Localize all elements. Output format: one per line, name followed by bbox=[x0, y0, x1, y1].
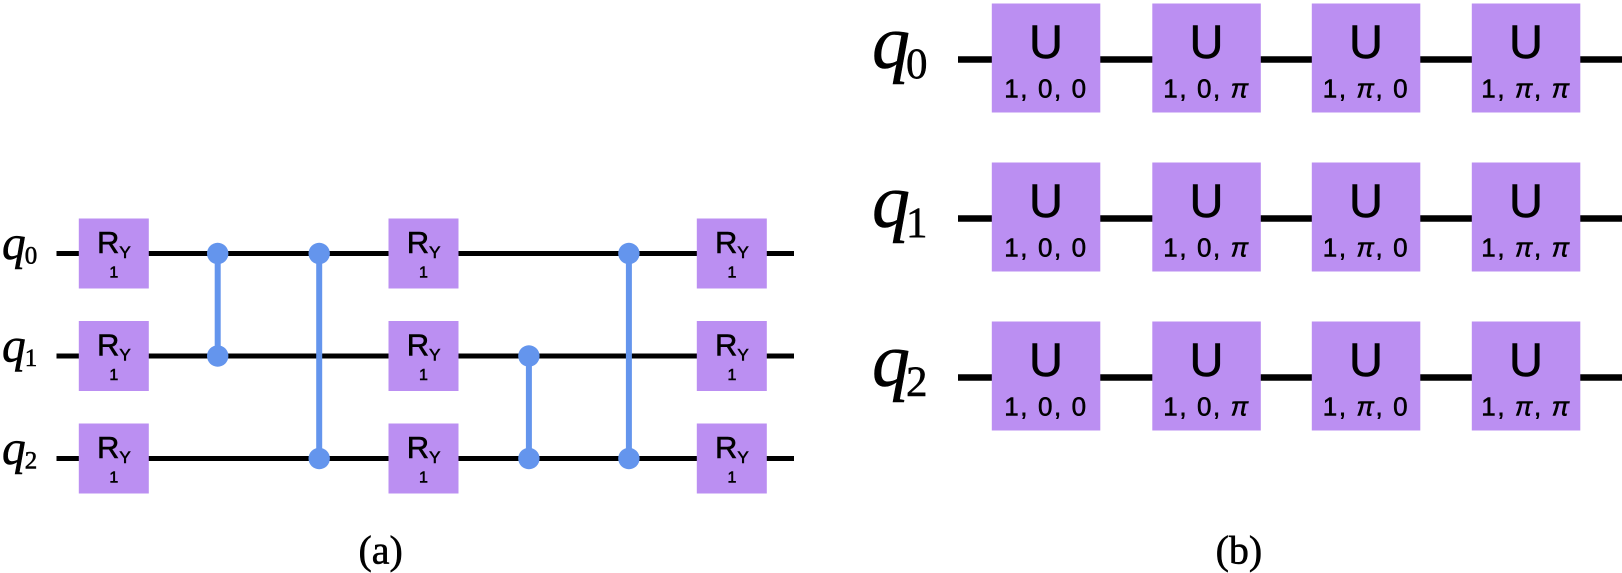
wire q0 (circuit a) bbox=[57, 251, 795, 256]
svg-text:1, 0, π: 1, 0, π bbox=[1163, 233, 1249, 263]
svg-text:1, 0, π: 1, 0, π bbox=[1163, 74, 1249, 104]
svg-text:U: U bbox=[1029, 174, 1063, 227]
svg-text:U: U bbox=[1029, 333, 1063, 386]
gate U(1,0,pi) q2 col2 (circuit b) bbox=[1152, 322, 1261, 431]
svg-text:(a): (a) bbox=[358, 528, 402, 573]
gate U(1,0,0) q0 col1 (circuit b) bbox=[992, 4, 1101, 113]
gate U(1,pi,pi) q2 col4 (circuit b) bbox=[1472, 322, 1581, 431]
gate RY(1) q2 col4 (circuit a) bbox=[389, 424, 459, 494]
svg-text:U: U bbox=[1349, 174, 1383, 227]
caption (b) bbox=[1216, 528, 1263, 573]
CZ connector col2 q0-q1 (circuit a) bbox=[207, 243, 228, 367]
svg-text:1, 0, 0: 1, 0, 0 bbox=[1004, 74, 1087, 104]
svg-text:U: U bbox=[1190, 333, 1224, 386]
svg-text:1, π, π: 1, π, π bbox=[1481, 233, 1570, 263]
svg-text:1, 0, 0: 1, 0, 0 bbox=[1004, 233, 1087, 263]
svg-text:1, π, π: 1, π, π bbox=[1481, 74, 1570, 104]
svg-text:q1: q1 bbox=[2, 321, 37, 373]
svg-text:1: 1 bbox=[727, 470, 736, 487]
svg-text:1, π, 0: 1, π, 0 bbox=[1323, 74, 1409, 104]
svg-text:1, 0, π: 1, 0, π bbox=[1163, 392, 1249, 422]
svg-text:1: 1 bbox=[419, 367, 428, 384]
svg-text:q0: q0 bbox=[2, 218, 37, 270]
gate U(1,pi,pi) q1 col4 (circuit b) bbox=[1472, 163, 1581, 272]
svg-text:1: 1 bbox=[727, 265, 736, 282]
wire q1 (circuit a) bbox=[57, 354, 795, 359]
svg-text:1: 1 bbox=[419, 470, 428, 487]
svg-text:U: U bbox=[1349, 333, 1383, 386]
gate RY(1) q1 col4 (circuit a) bbox=[389, 321, 459, 391]
gate RY(1) q2 col7 (circuit a) bbox=[697, 424, 767, 494]
gate RY(1) q0 col1 (circuit a) bbox=[79, 219, 149, 289]
qubit label q0 (circuit b) bbox=[872, 1, 928, 89]
svg-text:1: 1 bbox=[109, 265, 118, 282]
gate RY(1) q1 col7 (circuit a) bbox=[697, 321, 767, 391]
gate U(1,0,pi) q1 col2 (circuit b) bbox=[1152, 163, 1261, 272]
svg-text:1, π, 0: 1, π, 0 bbox=[1323, 392, 1409, 422]
wire q2 (circuit b) bbox=[958, 374, 1622, 381]
gate U(1,0,0) q1 col1 (circuit b) bbox=[992, 163, 1101, 272]
caption (a) bbox=[358, 528, 402, 573]
svg-text:1: 1 bbox=[419, 265, 428, 282]
svg-text:1, π, 0: 1, π, 0 bbox=[1323, 233, 1409, 263]
svg-text:U: U bbox=[1349, 15, 1383, 68]
svg-text:1: 1 bbox=[727, 367, 736, 384]
qubit label q1 (circuit a) bbox=[2, 321, 37, 373]
svg-text:U: U bbox=[1509, 333, 1543, 386]
gate RY(1) q0 col4 (circuit a) bbox=[389, 219, 459, 289]
CZ connector col5 q1-q2 (circuit a) bbox=[518, 345, 539, 469]
wire q1 (circuit b) bbox=[958, 215, 1622, 222]
gate U(1,0,0) q2 col1 (circuit b) bbox=[992, 322, 1101, 431]
gate RY(1) q2 col1 (circuit a) bbox=[79, 424, 149, 494]
qubit label q2 (circuit a) bbox=[2, 423, 37, 475]
gate U(1,pi,0) q0 col3 (circuit b) bbox=[1312, 4, 1421, 113]
gate U(1,pi,0) q1 col3 (circuit b) bbox=[1312, 163, 1421, 272]
gate U(1,0,pi) q0 col2 (circuit b) bbox=[1152, 4, 1261, 113]
wire q2 (circuit a) bbox=[57, 456, 795, 461]
svg-text:U: U bbox=[1029, 15, 1063, 68]
qubit label q2 (circuit b) bbox=[872, 319, 928, 407]
wire q0 (circuit b) bbox=[958, 56, 1622, 63]
svg-text:U: U bbox=[1190, 174, 1224, 227]
qubit label q0 (circuit a) bbox=[2, 218, 37, 270]
svg-text:U: U bbox=[1509, 174, 1543, 227]
qubit label q1 (circuit b) bbox=[872, 160, 928, 248]
svg-text:(b): (b) bbox=[1216, 528, 1263, 573]
svg-text:1: 1 bbox=[109, 367, 118, 384]
svg-text:1, 0, 0: 1, 0, 0 bbox=[1004, 392, 1087, 422]
svg-text:U: U bbox=[1509, 15, 1543, 68]
CZ connector col6 q0-q2 (circuit a) bbox=[618, 243, 639, 469]
svg-text:q2: q2 bbox=[2, 423, 37, 475]
svg-text:q0: q0 bbox=[872, 1, 928, 89]
svg-text:1, π, π: 1, π, π bbox=[1481, 392, 1570, 422]
svg-text:q2: q2 bbox=[872, 319, 928, 407]
gate RY(1) q1 col1 (circuit a) bbox=[79, 321, 149, 391]
gate U(1,pi,pi) q0 col4 (circuit b) bbox=[1472, 4, 1581, 113]
CZ connector col3 q0-q2 (circuit a) bbox=[309, 243, 330, 469]
gate U(1,pi,0) q2 col3 (circuit b) bbox=[1312, 322, 1421, 431]
svg-text:q1: q1 bbox=[872, 160, 928, 248]
svg-text:1: 1 bbox=[109, 470, 118, 487]
gate RY(1) q0 col7 (circuit a) bbox=[697, 219, 767, 289]
svg-text:U: U bbox=[1190, 15, 1224, 68]
